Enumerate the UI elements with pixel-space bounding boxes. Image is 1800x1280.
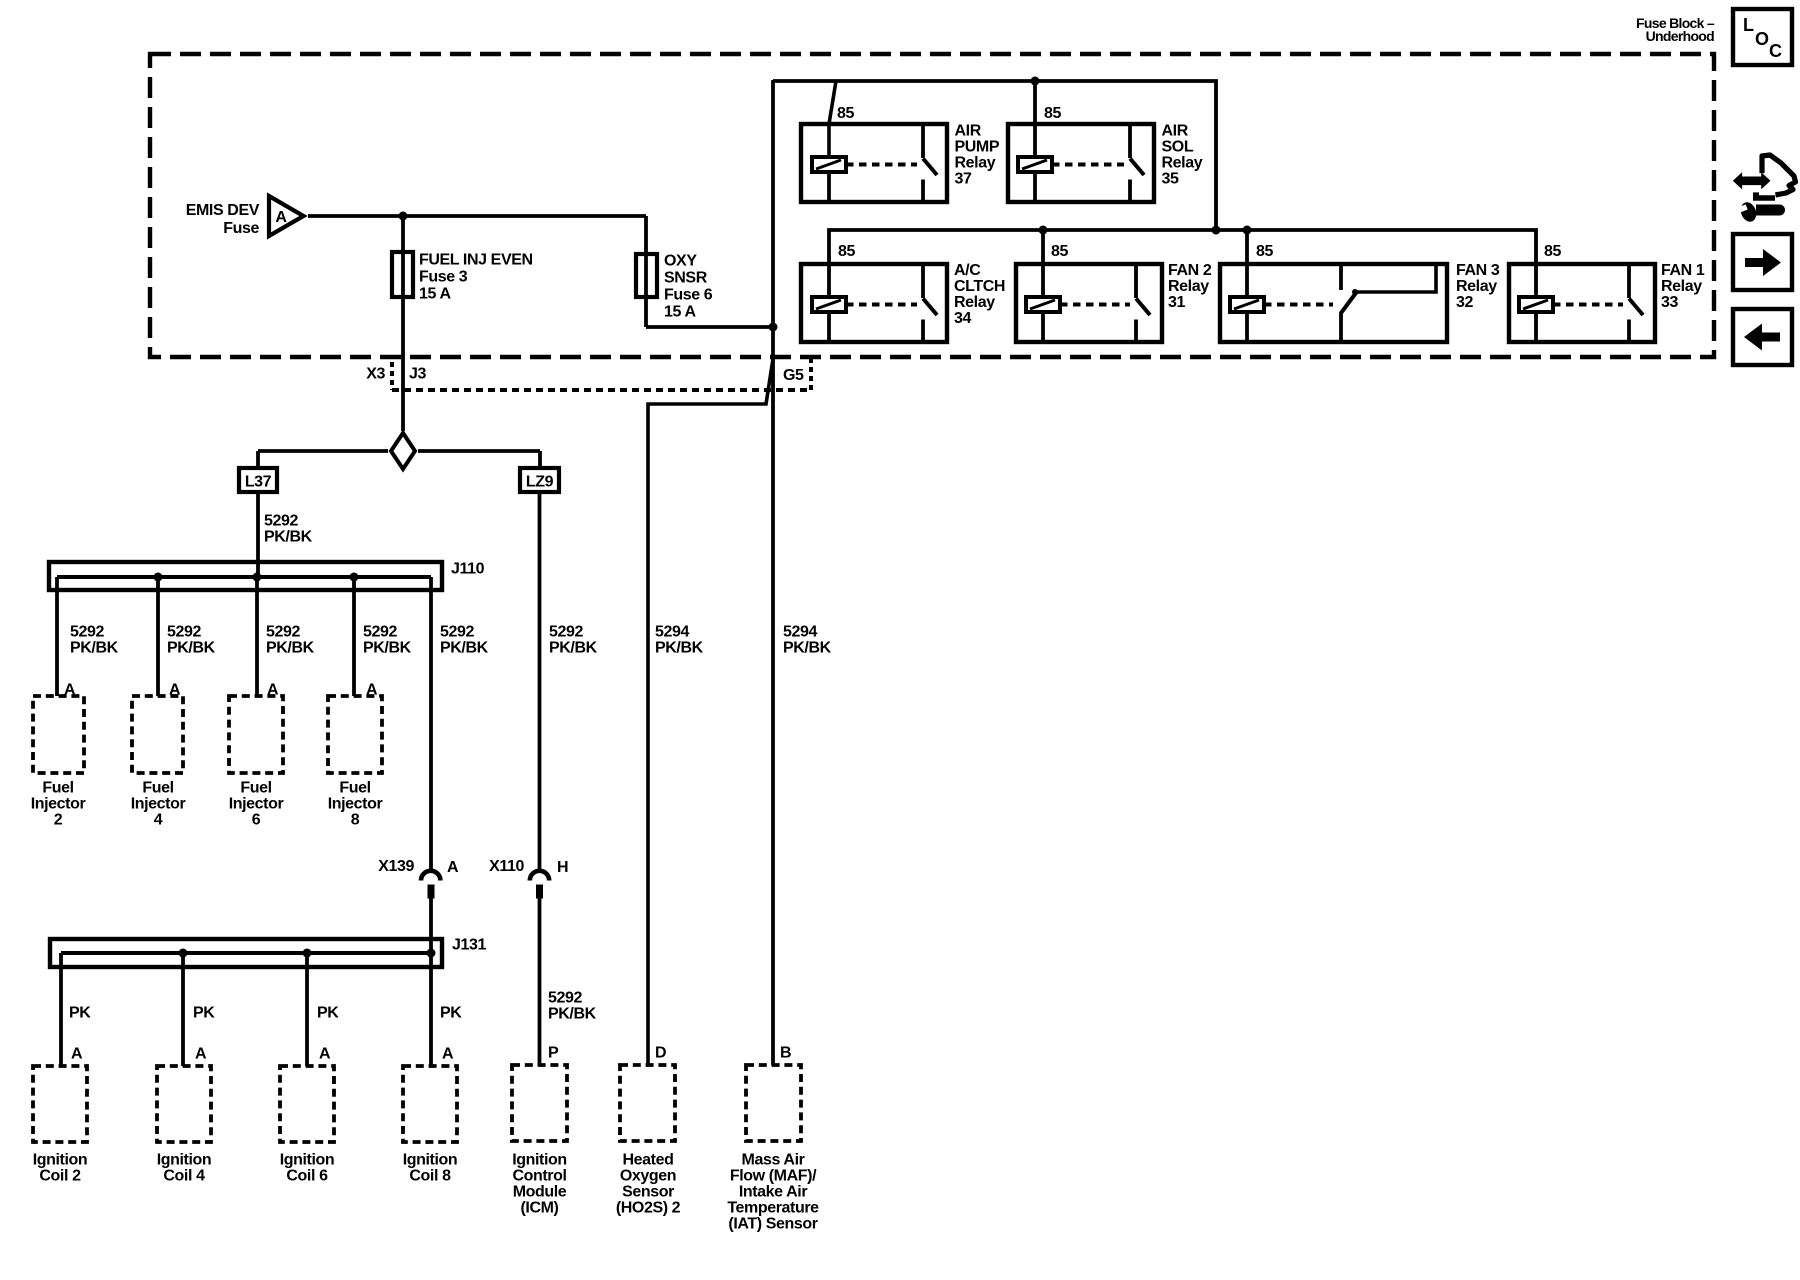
svg-text:Heated: Heated: [623, 1152, 674, 1169]
svg-text:L37: L37: [245, 474, 272, 491]
svg-text:A/C: A/C: [954, 262, 981, 279]
svg-text:Fuel: Fuel: [339, 780, 370, 797]
svg-text:A: A: [71, 1046, 83, 1063]
svg-text:FAN 3: FAN 3: [1456, 262, 1500, 279]
svg-text:Ignition: Ignition: [403, 1152, 458, 1169]
svg-text:31: 31: [1168, 294, 1185, 311]
svg-text:85: 85: [1256, 243, 1273, 260]
svg-text:Sensor: Sensor: [622, 1184, 674, 1201]
svg-text:37: 37: [955, 171, 972, 188]
svg-text:5292: 5292: [70, 624, 104, 641]
svg-text:FAN 1: FAN 1: [1661, 262, 1705, 279]
svg-text:PK/BK: PK/BK: [266, 640, 315, 657]
svg-text:Injector: Injector: [328, 796, 383, 813]
svg-text:X110: X110: [489, 858, 524, 875]
svg-text:SNSR: SNSR: [664, 270, 708, 287]
svg-text:5292: 5292: [440, 624, 474, 641]
svg-text:Fuse: Fuse: [223, 220, 259, 237]
svg-text:Relay: Relay: [1456, 278, 1497, 295]
svg-text:32: 32: [1456, 294, 1473, 311]
svg-text:Relay: Relay: [1162, 155, 1203, 172]
svg-text:Ignition: Ignition: [512, 1152, 567, 1169]
svg-text:Injector: Injector: [31, 796, 86, 813]
svg-text:EMIS DEV: EMIS DEV: [186, 202, 260, 219]
svg-text:OXY: OXY: [664, 253, 697, 270]
svg-text:34: 34: [954, 310, 971, 327]
svg-text:5292: 5292: [167, 624, 201, 641]
svg-text:Ignition: Ignition: [157, 1152, 212, 1169]
svg-text:O: O: [1755, 29, 1769, 49]
svg-text:B: B: [780, 1045, 791, 1062]
svg-text:LZ9: LZ9: [526, 474, 554, 491]
svg-text:PK/BK: PK/BK: [548, 1006, 597, 1023]
svg-text:Flow (MAF)/: Flow (MAF)/: [730, 1168, 817, 1185]
svg-text:85: 85: [837, 105, 854, 122]
svg-text:A: A: [442, 1046, 454, 1063]
svg-text:P: P: [548, 1045, 559, 1062]
svg-text:Ignition: Ignition: [280, 1152, 335, 1169]
svg-text:PK/BK: PK/BK: [783, 640, 832, 657]
svg-text:Intake Air: Intake Air: [739, 1184, 807, 1201]
svg-text:PK: PK: [440, 1005, 462, 1022]
svg-text:G5: G5: [783, 367, 804, 384]
svg-text:Module: Module: [513, 1184, 567, 1201]
svg-text:FUEL INJ EVEN: FUEL INJ EVEN: [419, 252, 533, 269]
svg-text:H: H: [557, 859, 568, 876]
svg-text:85: 85: [1544, 243, 1561, 260]
svg-text:X3: X3: [366, 366, 385, 383]
svg-text:CLTCH: CLTCH: [954, 278, 1005, 295]
svg-text:A: A: [275, 209, 287, 226]
svg-text:5294: 5294: [783, 624, 817, 641]
svg-text:35: 35: [1162, 171, 1179, 188]
svg-text:A: A: [195, 1046, 207, 1063]
svg-text:AIR: AIR: [955, 123, 982, 140]
svg-text:PUMP: PUMP: [955, 139, 1000, 156]
svg-text:85: 85: [1044, 105, 1061, 122]
svg-text:6: 6: [252, 812, 261, 829]
svg-text:5292: 5292: [548, 990, 582, 1007]
svg-text:PK/BK: PK/BK: [440, 640, 489, 657]
svg-text:Relay: Relay: [955, 155, 996, 172]
svg-text:Ignition: Ignition: [33, 1152, 88, 1169]
svg-text:Underhood: Underhood: [1646, 28, 1715, 44]
svg-text:8: 8: [351, 812, 360, 829]
svg-text:PK: PK: [317, 1005, 339, 1022]
svg-text:Relay: Relay: [1168, 278, 1209, 295]
svg-text:4: 4: [154, 812, 163, 829]
svg-text:(IAT) Sensor: (IAT) Sensor: [728, 1216, 817, 1233]
svg-text:PK/BK: PK/BK: [167, 640, 216, 657]
svg-text:Temperature: Temperature: [727, 1200, 819, 1217]
svg-text:PK/BK: PK/BK: [264, 529, 313, 546]
svg-text:PK: PK: [193, 1005, 215, 1022]
svg-text:Fuel: Fuel: [42, 780, 73, 797]
svg-text:Coil 4: Coil 4: [163, 1168, 205, 1185]
svg-text:L: L: [1743, 15, 1754, 35]
svg-text:A: A: [447, 859, 459, 876]
svg-text:Injector: Injector: [229, 796, 284, 813]
svg-text:85: 85: [1051, 243, 1068, 260]
svg-text:FAN 2: FAN 2: [1168, 262, 1212, 279]
svg-text:J110: J110: [451, 561, 485, 578]
svg-text:PK/BK: PK/BK: [70, 640, 119, 657]
svg-text:15 A: 15 A: [419, 286, 451, 303]
svg-text:5292: 5292: [266, 624, 300, 641]
svg-text:A: A: [319, 1046, 331, 1063]
svg-text:PK: PK: [69, 1005, 91, 1022]
svg-text:Injector: Injector: [131, 796, 186, 813]
svg-text:Control: Control: [512, 1168, 566, 1185]
svg-text:5292: 5292: [549, 624, 583, 641]
svg-text:Relay: Relay: [954, 294, 995, 311]
svg-text:Coil 2: Coil 2: [39, 1168, 81, 1185]
svg-text:Oxygen: Oxygen: [620, 1168, 676, 1185]
svg-text:15 A: 15 A: [664, 304, 696, 321]
svg-text:(ICM): (ICM): [521, 1200, 559, 1217]
svg-text:Mass Air: Mass Air: [742, 1152, 805, 1169]
svg-text:33: 33: [1661, 294, 1678, 311]
svg-text:5294: 5294: [655, 624, 689, 641]
svg-text:J3: J3: [409, 366, 426, 383]
svg-text:D: D: [655, 1045, 666, 1062]
svg-text:SOL: SOL: [1162, 139, 1194, 156]
svg-text:5292: 5292: [363, 624, 397, 641]
svg-text:Fuse 6: Fuse 6: [664, 287, 713, 304]
svg-text:5292: 5292: [264, 513, 298, 530]
svg-text:PK/BK: PK/BK: [655, 640, 704, 657]
svg-text:Fuel: Fuel: [142, 780, 173, 797]
svg-text:PK/BK: PK/BK: [549, 640, 598, 657]
svg-text:PK/BK: PK/BK: [363, 640, 412, 657]
svg-text:Fuel: Fuel: [240, 780, 271, 797]
svg-text:AIR: AIR: [1162, 123, 1189, 140]
svg-text:Coil 8: Coil 8: [409, 1168, 451, 1185]
svg-text:Coil 6: Coil 6: [286, 1168, 328, 1185]
svg-text:(HO2S) 2: (HO2S) 2: [616, 1200, 681, 1217]
svg-text:Relay: Relay: [1661, 278, 1702, 295]
svg-text:Fuse 3: Fuse 3: [419, 269, 468, 286]
svg-text:2: 2: [54, 812, 63, 829]
svg-text:85: 85: [838, 243, 855, 260]
svg-text:X139: X139: [378, 858, 414, 875]
svg-text:J131: J131: [452, 937, 486, 954]
svg-text:C: C: [1769, 41, 1782, 61]
